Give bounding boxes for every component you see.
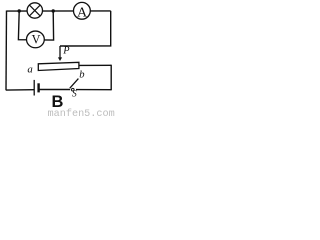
battery B short plate (-) [37, 83, 39, 92]
voltmeter V [27, 31, 45, 48]
switch S lever [70, 79, 79, 89]
svg-text:A: A [77, 6, 88, 21]
battery B long plate (+) [33, 80, 35, 96]
wire switch to right [76, 89, 111, 91]
svg-text:b: b [79, 70, 84, 81]
wire left vertical (battery + to top wire) [5, 11, 8, 91]
node junction dot left [18, 9, 21, 12]
ammeter A [74, 2, 91, 20]
rheostat R body [38, 62, 79, 70]
svg-text:manfen5.com: manfen5.com [48, 108, 115, 117]
wire bottom left (to battery) [6, 89, 34, 91]
lamp L (circle with X) [27, 3, 42, 18]
switch S contact circle [72, 88, 75, 91]
wire from rheostat b terminal to right [79, 64, 111, 66]
wire top (node between battery+ and lamp/ammeter row) [7, 10, 111, 12]
svg-text:a: a [27, 63, 32, 75]
wire right vertical lower (b to bottom wire) [110, 65, 112, 91]
voltmeter branch wires [18, 11, 53, 40]
slider arrowhead [58, 57, 62, 61]
svg-text:V: V [32, 32, 41, 46]
wire right vertical upper (ammeter to slider P) [60, 11, 111, 46]
node junction dot right [52, 9, 55, 12]
wire battery to switch [39, 89, 71, 91]
svg-text:S: S [72, 90, 77, 100]
svg-text:P: P [62, 45, 70, 56]
slider arrow P shaft [59, 46, 61, 58]
